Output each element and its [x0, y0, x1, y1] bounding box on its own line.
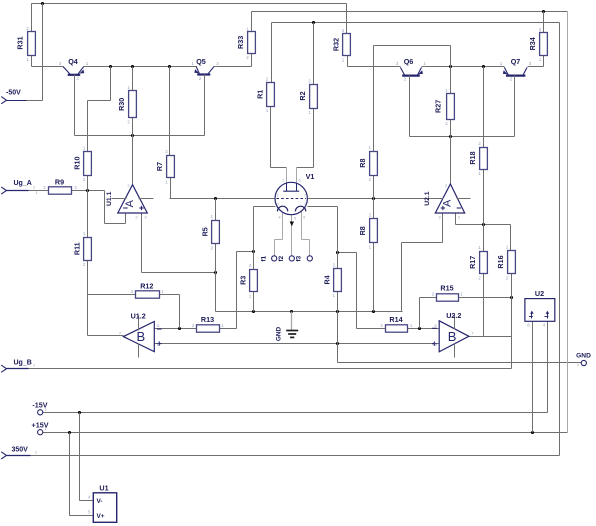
svg-text:R5: R5 — [200, 227, 209, 236]
svg-text:A: A — [442, 199, 454, 207]
svg-text:350V: 350V — [12, 446, 29, 453]
svg-text:V-: V- — [97, 498, 103, 505]
svg-text:R2: R2 — [298, 91, 307, 100]
svg-text:R3: R3 — [239, 276, 248, 285]
svg-text:f2: f2 — [278, 255, 285, 261]
svg-text:R34: R34 — [528, 37, 537, 50]
svg-text:R1: R1 — [256, 90, 265, 99]
svg-text:f1: f1 — [260, 255, 267, 261]
svg-text:3: 3 — [276, 203, 278, 207]
svg-text:7: 7 — [304, 194, 306, 198]
svg-text:R18: R18 — [468, 151, 477, 164]
svg-text:U2.2: U2.2 — [446, 311, 461, 320]
svg-text:R17: R17 — [468, 256, 477, 269]
svg-text:6: 6 — [298, 179, 300, 183]
svg-text:Ug_B: Ug_B — [14, 360, 32, 367]
svg-text:R4: R4 — [322, 275, 331, 284]
svg-text:4: 4 — [278, 216, 280, 220]
svg-text:f3: f3 — [296, 255, 303, 261]
svg-text:V1: V1 — [306, 172, 315, 181]
svg-text:B: B — [137, 329, 146, 344]
svg-text:R8: R8 — [358, 226, 367, 235]
svg-text:U1: U1 — [99, 484, 108, 493]
svg-text:R30: R30 — [117, 98, 126, 111]
svg-text:R9: R9 — [55, 177, 64, 186]
svg-text:R7: R7 — [155, 162, 164, 171]
svg-text:U1.2: U1.2 — [131, 312, 146, 321]
svg-text:5: 5 — [294, 217, 296, 221]
svg-text:R14: R14 — [389, 315, 402, 324]
svg-text:U2: U2 — [535, 289, 544, 298]
svg-text:2: 2 — [276, 194, 278, 198]
svg-text:R16: R16 — [496, 255, 505, 268]
svg-text:R10: R10 — [72, 157, 81, 170]
svg-text:R13: R13 — [201, 315, 214, 324]
svg-text:-50V: -50V — [6, 90, 21, 97]
svg-text:8: 8 — [304, 203, 306, 207]
svg-text:R12: R12 — [140, 281, 153, 290]
svg-text:Q7: Q7 — [511, 57, 521, 66]
svg-text:R27: R27 — [434, 100, 443, 113]
svg-text:9: 9 — [303, 216, 305, 220]
svg-text:R32: R32 — [332, 38, 341, 51]
svg-text:GND: GND — [576, 353, 591, 360]
svg-text:GND: GND — [275, 327, 282, 342]
svg-text:R31: R31 — [16, 36, 25, 49]
svg-text:U1.1: U1.1 — [106, 191, 113, 206]
svg-text:B: B — [448, 329, 457, 344]
svg-text:A: A — [124, 199, 136, 207]
svg-text:U2.1: U2.1 — [424, 191, 431, 206]
svg-text:R11: R11 — [72, 242, 81, 255]
svg-text:1: 1 — [282, 179, 284, 183]
svg-text:Q5: Q5 — [196, 57, 206, 66]
svg-text:Ug_A: Ug_A — [14, 180, 32, 187]
svg-text:Q4: Q4 — [68, 57, 78, 66]
svg-text:Q6: Q6 — [404, 57, 414, 66]
svg-text:R8: R8 — [358, 158, 367, 167]
svg-text:R15: R15 — [440, 284, 453, 293]
svg-text:R33: R33 — [236, 36, 245, 49]
svg-text:V+: V+ — [97, 513, 105, 520]
